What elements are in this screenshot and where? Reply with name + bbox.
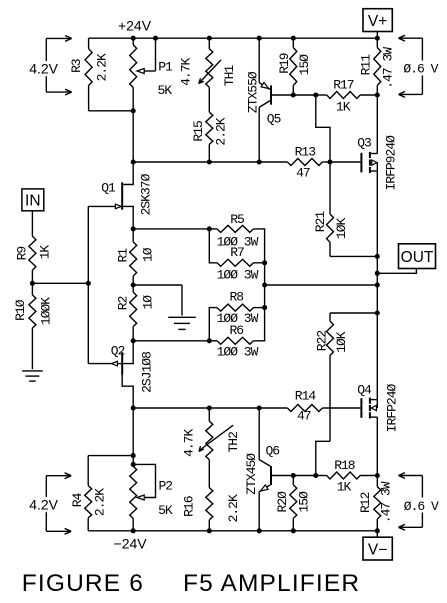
label R8 bbox=[229, 290, 243, 305]
transistor Q5 bbox=[259, 82, 271, 107]
label 2SK370 bbox=[139, 173, 154, 215]
svg-text:P1: P1 bbox=[158, 59, 173, 74]
value 5K bbox=[158, 503, 173, 518]
wire Q1 source row bbox=[133, 228, 209, 230]
wire Q4 drain bbox=[376, 417, 378, 475]
node R15 bottom bbox=[207, 159, 212, 164]
label Q3 bbox=[357, 135, 371, 150]
wire R9 bottom bbox=[31, 270, 33, 283]
wire V- stub bbox=[376, 531, 378, 537]
resistor R2 bbox=[130, 285, 137, 341]
svg-text:R16: R16 bbox=[182, 496, 197, 517]
label 4.7K bottom bbox=[182, 429, 197, 457]
node P1/drain bbox=[131, 159, 136, 164]
wire Q6 base bbox=[272, 475, 316, 477]
resistor R12 bbox=[374, 476, 381, 531]
svg-text:R11: R11 bbox=[358, 54, 373, 76]
node R6 left bbox=[207, 338, 212, 343]
svg-text:OUT: OUT bbox=[401, 249, 434, 266]
wire R11 node to Q3 drain bbox=[376, 95, 378, 154]
label 4.7K top bbox=[179, 58, 194, 86]
node Q1 source bbox=[131, 226, 136, 231]
value 10K bbox=[334, 218, 349, 240]
svg-text:R15: R15 bbox=[191, 121, 206, 142]
0.6V marker top bbox=[399, 35, 441, 97]
resistor R6 bbox=[209, 308, 264, 345]
svg-text:IRFP24Ø: IRFP24Ø bbox=[385, 383, 400, 432]
caption F5 AMPLIFIER bbox=[183, 570, 360, 597]
svg-text:R6: R6 bbox=[229, 323, 243, 338]
label P1 bbox=[158, 59, 173, 74]
svg-text:1Ø: 1Ø bbox=[141, 247, 156, 262]
node R17 right bbox=[375, 92, 380, 97]
svg-text:−24V: −24V bbox=[114, 536, 148, 552]
wire R3 to P1 bbox=[89, 110, 134, 112]
svg-text:5K: 5K bbox=[158, 503, 173, 518]
resistor R16 bbox=[206, 460, 213, 531]
value 100K bbox=[39, 297, 54, 325]
ground (center) bbox=[168, 285, 196, 329]
svg-text:1ØØ 3W: 1ØØ 3W bbox=[217, 345, 259, 360]
-24V label bbox=[114, 536, 148, 552]
svg-text:2SJ1Ø8: 2SJ1Ø8 bbox=[140, 352, 155, 393]
value 10 bbox=[141, 295, 156, 310]
svg-text:2.2K: 2.2K bbox=[93, 488, 108, 516]
value 2.2K bbox=[226, 494, 241, 522]
node Q6 emitter rail bbox=[257, 528, 262, 533]
transistor Q1 bbox=[88, 162, 133, 229]
node P2 bottom bbox=[131, 528, 136, 533]
value 1K bbox=[336, 100, 351, 115]
label R10 bbox=[13, 299, 28, 321]
svg-text:4.2V: 4.2V bbox=[29, 497, 58, 513]
node feedback tap bbox=[375, 282, 380, 287]
label R2 bbox=[115, 296, 130, 310]
wire input node bbox=[32, 282, 88, 284]
OUT terminal box bbox=[399, 244, 436, 269]
resistor R11 bbox=[374, 38, 381, 95]
value 100 3W bbox=[217, 311, 259, 326]
value 1K bbox=[337, 480, 352, 495]
label P2 bbox=[158, 479, 172, 494]
svg-text:Q2: Q2 bbox=[111, 344, 125, 359]
svg-text:P2: P2 bbox=[158, 479, 172, 494]
node R3/P1 bbox=[131, 108, 136, 113]
svg-text:R2Ø: R2Ø bbox=[275, 491, 290, 513]
value 150 bbox=[297, 54, 312, 76]
wire V+ stub bbox=[376, 32, 378, 39]
svg-text:5K: 5K bbox=[157, 83, 172, 98]
node R9/R10 bbox=[30, 281, 35, 286]
label ZTX550 bbox=[246, 71, 261, 113]
value 2.2K bbox=[93, 488, 108, 516]
node R5 left bbox=[207, 226, 212, 231]
wire drain node to R13 bbox=[133, 161, 287, 163]
node R4/P2 bbox=[131, 453, 136, 458]
V- terminal box bbox=[363, 537, 392, 560]
label R1 bbox=[115, 248, 130, 263]
label ZTX450 bbox=[244, 453, 259, 495]
value 2.2K bbox=[95, 53, 110, 81]
svg-text:R12: R12 bbox=[358, 492, 373, 513]
node R8 right bbox=[262, 305, 267, 310]
label R19 bbox=[277, 53, 292, 74]
transistor Q4 bbox=[361, 398, 377, 419]
node Q2 drain bbox=[131, 405, 136, 410]
node TH2 top bbox=[207, 405, 212, 410]
svg-text:R22: R22 bbox=[314, 331, 329, 352]
resistor R4 bbox=[85, 456, 92, 531]
node R21/output bbox=[375, 254, 380, 259]
value 100 3W bbox=[217, 345, 259, 360]
svg-text:Q1: Q1 bbox=[101, 180, 116, 195]
svg-text:1K: 1K bbox=[336, 100, 351, 115]
wire R4 to P2 bbox=[88, 455, 133, 457]
transistor Q6 bbox=[259, 460, 271, 531]
svg-text:R7: R7 bbox=[230, 245, 244, 260]
label R16 bbox=[182, 496, 197, 517]
-24V rail bbox=[88, 530, 377, 532]
svg-text:47: 47 bbox=[296, 166, 310, 181]
svg-text:R1: R1 bbox=[115, 248, 130, 263]
svg-text:R17: R17 bbox=[333, 78, 354, 93]
value .47 3W bbox=[381, 47, 396, 89]
wire bottom gate row bbox=[133, 407, 287, 409]
label R14 bbox=[295, 389, 317, 404]
label R12 bbox=[358, 492, 373, 513]
svg-text:ZTX45Ø: ZTX45Ø bbox=[244, 453, 259, 495]
ground (input) bbox=[22, 371, 43, 381]
value 2.2K bbox=[214, 117, 229, 145]
label Q2 bbox=[111, 344, 125, 359]
label R7 bbox=[230, 245, 244, 260]
resistor R15 bbox=[206, 87, 213, 162]
+24V rail bbox=[89, 37, 378, 39]
label R3 bbox=[69, 59, 84, 73]
label R13 bbox=[295, 145, 316, 160]
label IRFP240 bbox=[385, 383, 400, 432]
label Q5 bbox=[267, 112, 281, 127]
value 100 3W bbox=[217, 234, 259, 249]
4.2V marker bottom bbox=[27, 473, 72, 534]
node Q5 emitter rail bbox=[257, 36, 262, 41]
resistor R19 bbox=[290, 38, 297, 95]
potentiometer P1 bbox=[130, 38, 156, 87]
svg-text:47: 47 bbox=[297, 409, 311, 424]
resistor R10 bbox=[29, 283, 36, 369]
node Q5 collector bbox=[257, 159, 262, 164]
svg-text:4.7K: 4.7K bbox=[182, 429, 197, 457]
svg-text:4.2V: 4.2V bbox=[29, 61, 58, 77]
svg-text:15Ø: 15Ø bbox=[297, 491, 312, 513]
svg-text:V+: V+ bbox=[368, 13, 387, 30]
svg-text:R9: R9 bbox=[15, 247, 30, 261]
svg-text:2SK37Ø: 2SK37Ø bbox=[139, 173, 154, 215]
node TH1 top bbox=[207, 36, 212, 41]
label Q6 bbox=[265, 444, 279, 459]
value 1K bbox=[37, 245, 52, 260]
svg-text:V−: V− bbox=[368, 542, 387, 559]
potentiometer P2 bbox=[130, 464, 156, 530]
svg-text:R8: R8 bbox=[229, 290, 243, 305]
resistor R13 bbox=[287, 159, 330, 166]
svg-text:R21: R21 bbox=[313, 211, 328, 233]
svg-text:15Ø: 15Ø bbox=[297, 54, 312, 76]
label R9 bbox=[15, 247, 30, 261]
svg-text:Ø.6 V: Ø.6 V bbox=[403, 62, 438, 77]
node feedback mid bbox=[262, 282, 267, 287]
wire Q6 collector bbox=[258, 408, 260, 460]
value 47 bbox=[297, 409, 311, 424]
svg-text:Q6: Q6 bbox=[265, 444, 279, 459]
caption FIGURE 6 bbox=[22, 570, 144, 597]
svg-text:IN: IN bbox=[25, 193, 41, 210]
node R11 top bbox=[375, 36, 380, 41]
svg-text:R4: R4 bbox=[70, 492, 85, 507]
label R11 bbox=[358, 54, 373, 76]
resistor R9 bbox=[29, 236, 36, 270]
value 150 bbox=[297, 491, 312, 513]
value 47 bbox=[296, 166, 310, 181]
svg-text:2.2K: 2.2K bbox=[95, 53, 110, 81]
node R19/Q5 base bbox=[291, 92, 296, 97]
label R15 bbox=[191, 121, 206, 142]
svg-text:ZTX55Ø: ZTX55Ø bbox=[246, 71, 261, 113]
resistor R1 bbox=[130, 229, 137, 285]
wire Q2 source row bbox=[133, 340, 209, 342]
node R17 left bbox=[313, 92, 318, 97]
V+ terminal box bbox=[363, 9, 392, 32]
wire IN to R9 bbox=[31, 211, 33, 237]
svg-text:1ØØK: 1ØØK bbox=[39, 297, 54, 325]
svg-text:FIGURE 6: FIGURE 6 bbox=[22, 570, 144, 597]
label TH2 bbox=[226, 432, 241, 453]
svg-text:Ø.6 V: Ø.6 V bbox=[404, 499, 439, 514]
wire P2 column bbox=[132, 408, 134, 466]
resistor R21 bbox=[327, 162, 378, 256]
resistor R7 bbox=[209, 229, 264, 266]
value 10 bbox=[141, 247, 156, 262]
value 5K bbox=[157, 83, 172, 98]
transistor Q2 bbox=[88, 341, 133, 408]
0.6V marker bottom bbox=[399, 473, 442, 531]
svg-text:R18: R18 bbox=[334, 458, 355, 473]
node OUT bbox=[375, 271, 380, 276]
resistor R17 bbox=[316, 92, 378, 99]
svg-text:Q3: Q3 bbox=[357, 135, 371, 150]
value 100 3W bbox=[217, 267, 259, 282]
svg-text:1ØK: 1ØK bbox=[334, 331, 349, 353]
label IRFP9240 bbox=[384, 135, 399, 191]
svg-text:R2: R2 bbox=[115, 296, 130, 310]
node Q6 collector bbox=[257, 405, 262, 410]
svg-text:Q4: Q4 bbox=[357, 382, 372, 397]
svg-text:1K: 1K bbox=[337, 480, 352, 495]
label R6 bbox=[229, 323, 243, 338]
wire R7 to mid node bbox=[264, 263, 266, 285]
svg-text:TH2: TH2 bbox=[226, 432, 241, 453]
svg-text:R3: R3 bbox=[69, 59, 84, 73]
svg-text:TH1: TH1 bbox=[222, 65, 237, 87]
svg-text:1K: 1K bbox=[37, 245, 52, 260]
wire Q5 emitter bbox=[258, 38, 260, 82]
node R16 bottom bbox=[207, 528, 212, 533]
node Q2 source bbox=[131, 338, 136, 343]
node R7 right bbox=[262, 260, 267, 265]
label R20 bbox=[275, 491, 290, 513]
label R4 bbox=[70, 492, 85, 507]
label 2SJ108 bbox=[140, 352, 155, 393]
wire gate column bbox=[87, 206, 89, 363]
node R18 right bbox=[375, 473, 380, 478]
svg-text:2.2K: 2.2K bbox=[214, 117, 229, 145]
value .47 3W bbox=[379, 481, 394, 523]
svg-text:R5: R5 bbox=[230, 212, 244, 227]
wire P1 node down bbox=[132, 88, 134, 163]
svg-text:R1Ø: R1Ø bbox=[13, 299, 28, 321]
node P2 wiper top bbox=[131, 462, 136, 467]
svg-text:R14: R14 bbox=[295, 389, 317, 404]
node R13/R21/gate bbox=[327, 159, 332, 164]
node R1/R2 bbox=[131, 282, 136, 287]
svg-text:4.7K: 4.7K bbox=[179, 58, 194, 86]
svg-text:.47 3W: .47 3W bbox=[379, 481, 394, 523]
svg-text:1Ø: 1Ø bbox=[141, 295, 156, 310]
node R18 left bbox=[313, 473, 318, 478]
resistor R14 bbox=[287, 405, 360, 412]
wire to center ground bbox=[133, 284, 182, 286]
value 10K bbox=[334, 331, 349, 353]
wire Q5 base bbox=[272, 94, 316, 96]
node gate column bbox=[86, 281, 91, 286]
svg-text:1ØØ 3W: 1ØØ 3W bbox=[217, 267, 259, 282]
svg-text:.47 3W: .47 3W bbox=[381, 47, 396, 89]
node R12 bottom bbox=[375, 528, 380, 533]
wire feedback bbox=[265, 284, 378, 286]
node R20 bottom bbox=[291, 528, 296, 533]
label R22 bbox=[314, 331, 329, 352]
node R20/Q6 base bbox=[291, 473, 296, 478]
resistor R3 bbox=[85, 38, 92, 111]
wire output column bbox=[376, 171, 378, 400]
node P1 wiper bbox=[153, 36, 158, 41]
thermistor TH2 bbox=[199, 408, 233, 460]
node R19 top bbox=[291, 36, 296, 41]
svg-text:2.2K: 2.2K bbox=[226, 494, 241, 522]
svg-text:1ØK: 1ØK bbox=[334, 218, 349, 240]
label TH1 bbox=[222, 65, 237, 87]
+24V label bbox=[118, 18, 152, 34]
svg-text:R19: R19 bbox=[277, 53, 292, 74]
svg-text:F5 AMPLIFIER: F5 AMPLIFIER bbox=[183, 570, 360, 597]
wire Q5 collector bbox=[258, 107, 260, 162]
label R5 bbox=[230, 212, 244, 227]
label Q1 bbox=[101, 180, 116, 195]
label R18 bbox=[334, 458, 355, 473]
resistor R5 bbox=[209, 225, 264, 262]
label R17 bbox=[333, 78, 354, 93]
svg-text:Q5: Q5 bbox=[267, 112, 281, 127]
node P1 top bbox=[131, 36, 136, 41]
wire R13 to Q3 gate bbox=[330, 161, 360, 163]
resistor R18 bbox=[316, 472, 378, 479]
wire mid to R8 bbox=[264, 285, 266, 308]
svg-text:R13: R13 bbox=[295, 145, 316, 160]
4.2V marker top bbox=[27, 36, 72, 96]
svg-text:IRFP924Ø: IRFP924Ø bbox=[384, 135, 399, 191]
resistor R22 bbox=[316, 313, 378, 476]
svg-text:+24V: +24V bbox=[118, 18, 152, 34]
thermistor TH1 bbox=[199, 38, 221, 87]
wire jog to gate bbox=[316, 95, 330, 162]
transistor Q3 bbox=[361, 152, 377, 173]
label Q4 bbox=[357, 382, 372, 397]
wire OUT bbox=[377, 269, 416, 274]
label R21 bbox=[313, 211, 328, 233]
node R22/output bbox=[375, 310, 380, 315]
resistor R8 bbox=[209, 304, 264, 341]
IN terminal box bbox=[22, 189, 44, 211]
resistor R20 bbox=[290, 476, 297, 531]
